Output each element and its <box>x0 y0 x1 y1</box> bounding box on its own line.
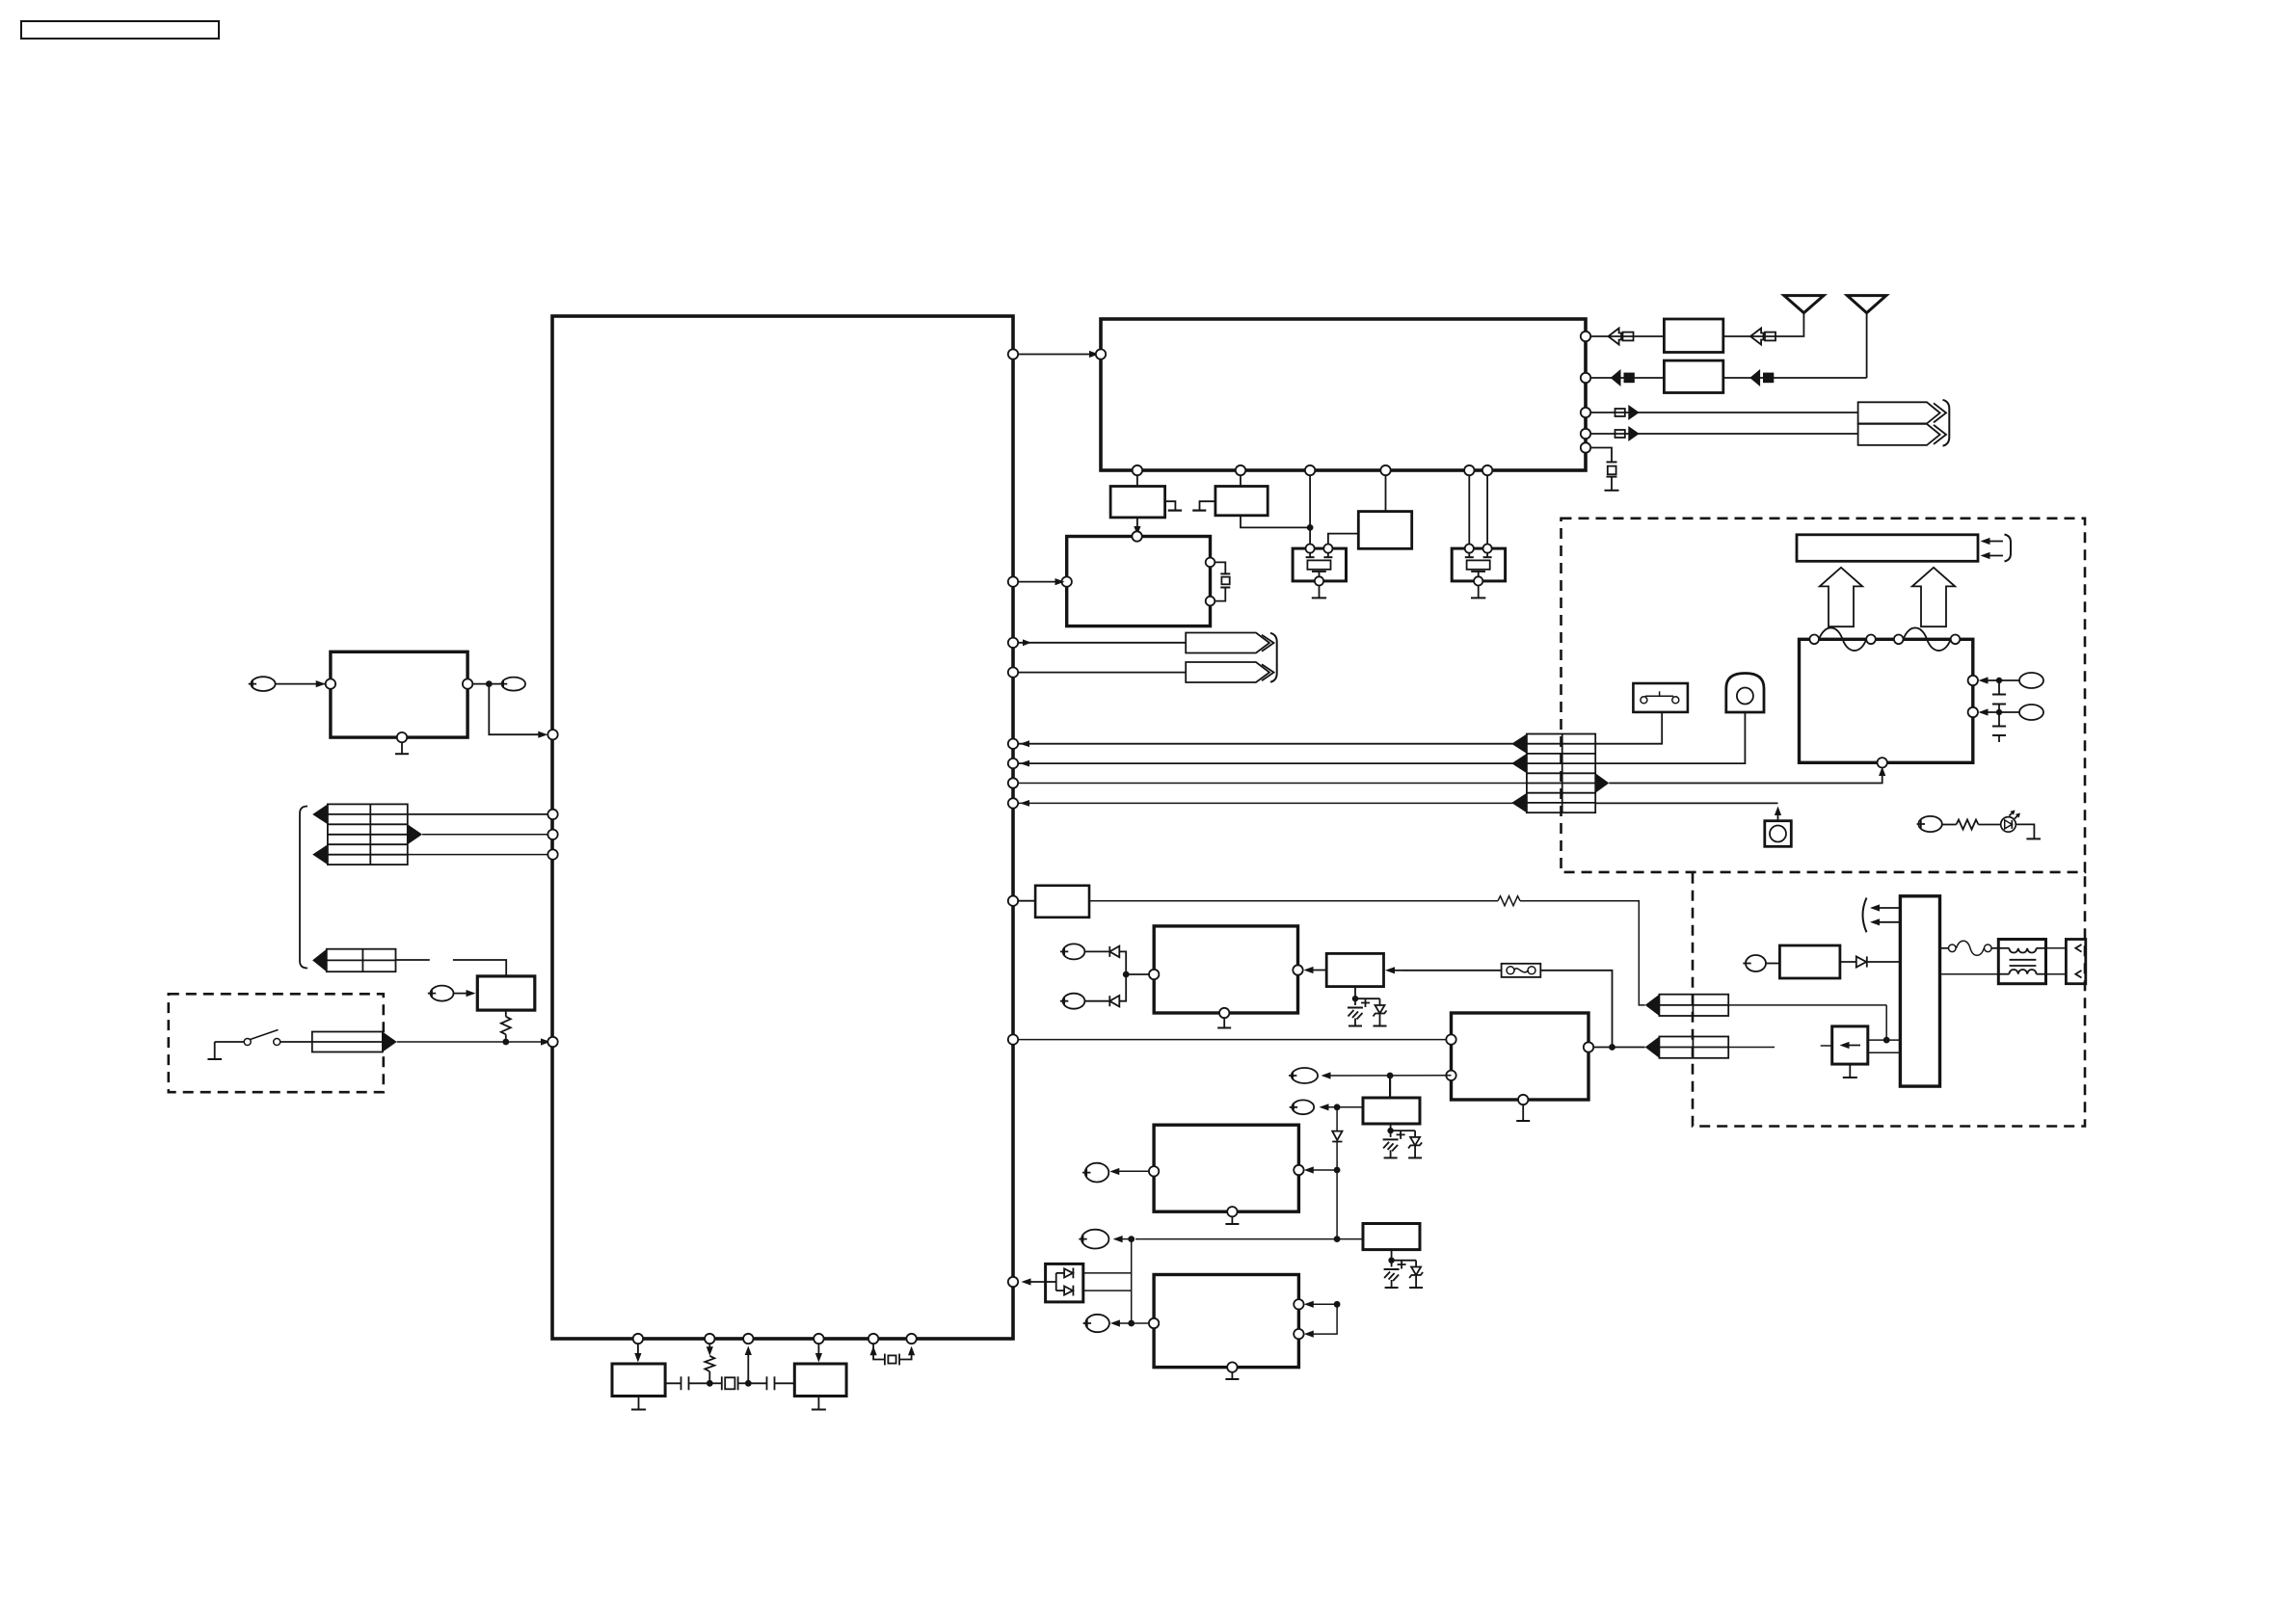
pin voice right 2 <box>1206 597 1215 606</box>
block L osc driver <box>612 1344 665 1396</box>
ground battery <box>207 1042 222 1059</box>
ground EEPROM <box>395 742 409 754</box>
pin LCD top 3 <box>1894 635 1904 645</box>
wire data out 2 <box>1590 426 1858 441</box>
wire to pennant C2 <box>1018 672 1186 674</box>
oval terminal LCD 1 <box>2019 673 2043 688</box>
wire battery to CPU <box>397 1038 550 1045</box>
transformer T1 <box>1998 940 2045 984</box>
connector CN2 <box>312 949 395 972</box>
pin RF left <box>1096 349 1106 359</box>
ground amp1 <box>1225 1216 1239 1224</box>
wire CN2 to reset <box>396 960 507 976</box>
ground X1 <box>1312 597 1326 599</box>
antenna ANT2 <box>1847 296 1886 378</box>
resistor R1 <box>501 1010 511 1042</box>
pin amp2 right 1 <box>1294 1299 1303 1309</box>
wires T1 to jack <box>2046 948 2067 974</box>
bracket right of J1 J2 <box>1943 400 1950 446</box>
connector pennant J2 <box>1858 424 1946 445</box>
antenna ANT1 <box>1784 296 1824 336</box>
pin charge left 2 <box>1446 1071 1455 1080</box>
connector pennant C1 <box>1186 633 1273 653</box>
crystal can X1 <box>1293 545 1346 599</box>
wire RX line with open connector symbols <box>1590 329 1802 345</box>
pin CPU right P2 <box>1008 576 1018 586</box>
wire key row2 <box>1018 760 1527 767</box>
connector pennant J1 <box>1858 402 1946 423</box>
pin EEPROM bottom <box>397 732 407 742</box>
pin CPU key row3 <box>1008 778 1018 787</box>
pin CPU key row2 <box>1008 758 1018 768</box>
IC8 audio amp 1 <box>1154 1125 1298 1211</box>
IC4 EEPROM block <box>331 652 467 737</box>
switch SW1 <box>215 1030 280 1046</box>
ground X2 <box>1471 597 1485 599</box>
block R8 line feed <box>1766 945 1840 978</box>
wire to amp1 right pin <box>1304 1166 1341 1238</box>
IC11 line interface block <box>1900 896 1939 1086</box>
pin CPU key row4 <box>1008 798 1018 808</box>
oscillator block B1 <box>1110 475 1182 518</box>
capacitor C10 <box>1992 680 2006 712</box>
wire CN3 to microphone <box>1595 803 1781 820</box>
oval terminal LCD 2 <box>2019 705 2043 720</box>
supply oval minus <box>1743 955 1766 971</box>
wire oval to R5 <box>1320 1104 1364 1110</box>
wire CPU to RF <box>1013 351 1099 358</box>
pin LCD top 2 <box>1866 635 1876 645</box>
resistor R2 on sense wire <box>1089 896 1645 1005</box>
wire CPU to charge block <box>1018 1039 1451 1041</box>
pin RF right 2 <box>1581 373 1590 383</box>
ground block L <box>631 1397 646 1410</box>
LED supply oval <box>1917 816 1942 832</box>
key switch SW2 <box>1633 683 1688 712</box>
wire LCD right 2 <box>1979 708 2020 715</box>
microphone MIC1 <box>1765 821 1792 847</box>
wire key row4 <box>1018 800 1527 807</box>
pin RF bottom 4 <box>1380 466 1390 475</box>
pin RF bottom 6 <box>1482 466 1492 475</box>
pin CPU left row1 <box>547 810 557 819</box>
diode D4 <box>1840 956 1901 967</box>
pin CPU right P4 <box>1008 1034 1018 1044</box>
pin EEPROM left <box>326 678 335 688</box>
power strip connector PS2 <box>1645 1037 1729 1058</box>
wire R6 net <box>1113 1236 1363 1242</box>
wire charge sense <box>1322 1072 1452 1098</box>
wire diodes to 5V block <box>1123 971 1154 978</box>
crystal X5 <box>870 1344 916 1365</box>
wire TX line with solid connector symbols <box>1590 369 1867 386</box>
ground charge <box>1516 1104 1530 1121</box>
pin LCD top 1 <box>1809 635 1819 645</box>
pin CPU bottom 5 <box>868 1334 878 1344</box>
pin 5V bottom <box>1219 1008 1229 1018</box>
block R osc driver <box>794 1344 846 1396</box>
bracket left connectors <box>300 807 307 969</box>
supply oval 5V in2 <box>1060 994 1085 1009</box>
pin LCD right 2 <box>1968 707 1978 717</box>
supply oval 5V in1 <box>1060 944 1085 959</box>
wire CPU to voice <box>1013 578 1065 585</box>
ground R9 <box>1843 1064 1857 1078</box>
pin amp2 right 2 <box>1294 1329 1303 1339</box>
pin CPU bottom 1 <box>633 1334 643 1344</box>
wire oval to EEPROM <box>276 680 326 687</box>
pin LCD bottom <box>1878 758 1887 767</box>
pin CPU right P3 <box>1008 896 1018 906</box>
wire X4 to pin3 <box>745 1346 752 1384</box>
LED D3 <box>2001 811 2020 833</box>
pin voice top <box>1132 531 1141 541</box>
ground amp2 <box>1225 1372 1239 1379</box>
pin charge right <box>1584 1042 1593 1051</box>
block R3 on supply sense wire <box>1018 886 1089 918</box>
wire oval to reset <box>454 990 476 997</box>
pin CPU left P1 <box>547 730 557 739</box>
supply oval audio2 <box>1079 1230 1108 1249</box>
wire CN1 row3 <box>408 854 548 856</box>
pin CPU key row1 <box>1008 739 1018 749</box>
pin RF right 5 <box>1581 442 1590 452</box>
pin voice left <box>1062 576 1072 586</box>
wires diode box to V2 <box>1083 1239 1132 1323</box>
coil L1 <box>1940 941 1999 955</box>
pin 5V left <box>1149 970 1159 979</box>
wire CN3 to LCD driver <box>1609 767 1885 784</box>
jack CN4 <box>2066 940 2085 984</box>
diode pair box D6 <box>1022 1264 1083 1302</box>
wire oval amp2 <box>1110 1319 1149 1326</box>
crystal X3 at voice block <box>1215 562 1230 600</box>
supply oval charge sense <box>1289 1068 1318 1083</box>
coil arcs LCD top right <box>1904 627 1951 651</box>
battery connector BT1 <box>280 1032 397 1052</box>
power strip connector PS1 <box>1645 995 1729 1016</box>
capacitor X0 on RF pin5 to ground <box>1590 448 1617 491</box>
pin RF right 1 <box>1581 332 1590 341</box>
pin amp2 left <box>1149 1318 1159 1328</box>
ground RF pin5 <box>1605 490 1619 492</box>
wire data out 1 <box>1590 405 1858 420</box>
pin EEPROM right <box>463 678 472 688</box>
diode D5 <box>1332 1107 1342 1170</box>
pin RF bottom 3 <box>1305 466 1315 475</box>
wire to pennant C1 <box>1018 639 1186 646</box>
pin amp2 bottom <box>1227 1362 1237 1371</box>
connector pennant C2 <box>1186 662 1273 682</box>
wire line block out2 <box>1940 973 1999 975</box>
block R5 charge control <box>1363 1098 1420 1124</box>
pin voice right 1 <box>1206 558 1215 568</box>
bracket right of C1 C2 <box>1270 633 1277 682</box>
line block arrows out <box>1863 898 1901 933</box>
pin LCD right 1 <box>1968 676 1978 685</box>
wires V1 to amp2 pins <box>1304 1301 1341 1338</box>
block R4 regulator control <box>1304 953 1384 986</box>
capacitor C1 <box>665 1376 709 1390</box>
supply oval amp2 <box>1083 1315 1109 1332</box>
wire key row3 <box>1018 783 1527 785</box>
pin CPU bottom 4 <box>814 1334 823 1344</box>
wire B2 to crystal net <box>1241 475 1314 548</box>
pin CPU right P5 <box>1008 1277 1018 1287</box>
IC7 charge block <box>1452 1013 1589 1100</box>
connector ladder CN1 <box>312 804 422 865</box>
pin 5V right <box>1293 965 1302 974</box>
pin CPU bottom 3 <box>743 1334 753 1344</box>
hollow arrow up 2 <box>1912 568 1955 626</box>
pin RF right 4 <box>1581 429 1590 439</box>
coil arcs LCD top left <box>1819 627 1866 651</box>
supply oval audio1 <box>1290 1100 1315 1114</box>
pin CPU left row2 <box>547 830 557 839</box>
cap and zener under R6 <box>1384 1250 1424 1288</box>
pin CPU bottom 6 <box>906 1334 916 1344</box>
wire B1 to voice IC <box>1134 518 1140 536</box>
wire PS1 to line block <box>1728 1005 1900 1044</box>
pin RF right 3 <box>1581 408 1590 417</box>
pin charge left 1 <box>1446 1034 1455 1044</box>
ground 5V <box>1217 1018 1231 1027</box>
IC6 5V regulator block <box>1154 926 1297 1013</box>
crystal X4 <box>707 1376 752 1390</box>
pin amp1 right <box>1294 1165 1303 1175</box>
oscillator block B2 <box>1192 475 1268 516</box>
hollow arrow up 1 <box>1820 568 1862 626</box>
block R9 line switch <box>1832 1026 1901 1064</box>
pin RF bottom 2 <box>1236 466 1245 475</box>
fuse F1 <box>1385 964 1613 1048</box>
wire CN1 row1 <box>408 813 548 815</box>
capacitor C11 <box>1992 712 2006 742</box>
diode D1 <box>1084 946 1126 974</box>
connector ladder CN3 <box>1511 734 1609 813</box>
wire key row1 <box>1018 740 1527 747</box>
wire CN3 to key switch <box>1595 712 1662 744</box>
IC5 reset block <box>477 976 535 1010</box>
filter FL1 <box>1664 319 1722 353</box>
crystal can X2 <box>1452 475 1505 598</box>
pin amp1 left <box>1149 1166 1159 1176</box>
dashed box battery <box>169 994 384 1092</box>
supply oval EEPROM left <box>249 677 276 691</box>
LCD module bar <box>1797 535 1978 562</box>
pin CPU bottom 2 <box>705 1334 714 1344</box>
filter FL2 <box>1664 360 1722 392</box>
dashed box telephone line unit <box>1693 873 2085 1127</box>
pin CPU pennant 1 <box>1008 638 1018 648</box>
pin charge bottom <box>1518 1095 1528 1104</box>
wire amp1 to oval <box>1109 1168 1149 1175</box>
wire CN3 to buzzer <box>1595 712 1745 763</box>
IC3 voice block <box>1067 537 1211 626</box>
ground block R <box>812 1397 826 1410</box>
supply oval EEPROM right <box>499 678 525 691</box>
pin CPU left row3 <box>547 849 557 859</box>
resistor R10 <box>1942 820 2001 830</box>
wire PS2 stub <box>1728 1046 1832 1048</box>
wire CN1 row2 <box>422 834 547 836</box>
diode D2 <box>1084 974 1126 1007</box>
block R6 <box>1363 1224 1420 1250</box>
resistor R7 <box>705 1344 714 1383</box>
pin CPU pennant 2 <box>1008 667 1018 677</box>
IC9 audio amp 2 <box>1154 1275 1298 1368</box>
supply oval amp1 <box>1082 1163 1108 1183</box>
pin RF bottom 5 <box>1464 466 1474 475</box>
supply oval reset <box>428 986 454 1001</box>
cap and zener under R5 <box>1383 1124 1423 1157</box>
capacitor C2 <box>748 1376 794 1390</box>
cap and zener under R4 <box>1348 987 1387 1026</box>
ground LED <box>2026 838 2041 839</box>
pin LCD top 4 <box>1951 635 1961 645</box>
pin CPU left battery <box>547 1037 557 1047</box>
wire LED to ground <box>2016 824 2034 838</box>
LCD flex arrows <box>1981 535 2012 562</box>
pin CPU right P1 <box>1008 349 1018 359</box>
wire charge out to PS2 <box>1593 1044 1645 1051</box>
dashed box keypad unit <box>1562 519 2086 872</box>
IC1 main CPU block <box>552 316 1013 1339</box>
wire EEPROM to CPU <box>472 680 547 738</box>
IC2 RF block <box>1101 319 1586 470</box>
pin RF bottom 1 <box>1133 466 1142 475</box>
buzzer BZ1 <box>1726 674 1764 713</box>
pin amp1 bottom <box>1227 1207 1237 1216</box>
IC10 LCD driver block <box>1800 639 1973 762</box>
block C osc buffer <box>1328 475 1412 548</box>
wire LCD right 1 <box>1979 677 2020 683</box>
title box <box>21 21 219 39</box>
